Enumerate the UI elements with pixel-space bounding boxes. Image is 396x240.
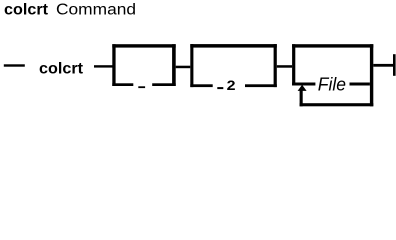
svg-text:colcrt: colcrt: [4, 2, 48, 19]
wire: rail between option box 1 and option box 2: [176, 66, 191, 69]
wire: main rail from colcrt into option box 1: [94, 65, 113, 67]
option box 1 lower branch right segment: [152, 83, 176, 86]
option box 1 lower branch left segment: [112, 83, 133, 86]
option box 3 left vertical: [292, 44, 295, 85]
repeat-loop arrow stem: [300, 91, 303, 107]
start-of-syntax dash: [4, 64, 25, 66]
option box 1 left vertical: [112, 44, 115, 86]
repeat-loop bottom wire: [300, 103, 374, 106]
svg-text:Command: Command: [56, 2, 136, 19]
option box 2 lower branch right segment: [245, 84, 277, 87]
flag label hyphen of "-2": [217, 87, 223, 89]
repeat-loop arrowhead (points up into File branch): [298, 85, 307, 91]
option box 2 top bypass line: [190, 44, 276, 48]
option box 1 top bypass line: [112, 44, 175, 47]
option box 2 left vertical: [190, 44, 193, 87]
option box 3 lower branch right segment: [350, 83, 370, 86]
option box 3 right vertical (continues down as repeat-loop right side): [370, 44, 373, 106]
wire: rail between option box 2 and option box 3: [277, 65, 292, 68]
wire: exit rail to terminal: [373, 64, 393, 67]
option box 2 lower branch left segment: [190, 84, 212, 87]
option box 3 lower branch left segment: [292, 83, 315, 86]
end-of-syntax terminal bar: [393, 54, 396, 76]
svg-text:2: 2: [227, 78, 236, 93]
option box 2 right vertical: [274, 44, 277, 87]
svg-text:File: File: [318, 74, 346, 94]
svg-text:colcrt: colcrt: [39, 61, 84, 78]
option box 3 top bypass line: [292, 44, 373, 47]
option box 1 right vertical: [172, 44, 176, 86]
flag label "-" (minus option): [138, 86, 145, 88]
